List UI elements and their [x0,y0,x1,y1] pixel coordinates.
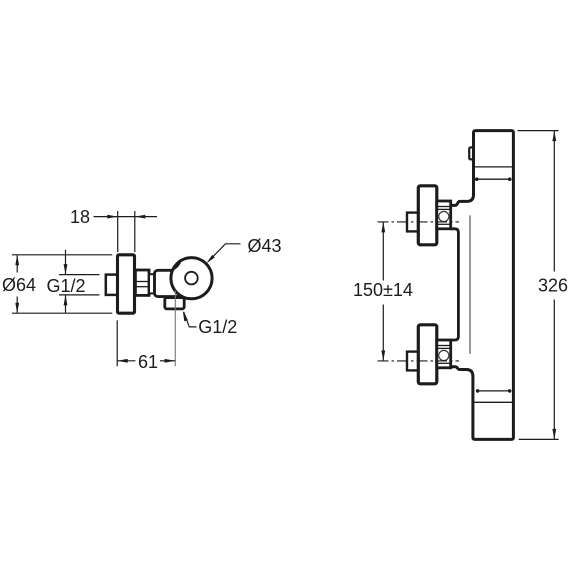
mixer bar outline with S-curves [451,131,514,440]
svg-text:G1/2: G1/2 [47,276,86,296]
ext line dia64 top [12,254,113,256]
screw line lower with dots [478,390,510,392]
outlet fitting G12 (bottom) [165,298,184,309]
dim arrow G12-left down [65,250,67,275]
ext line G12-left lower [59,294,100,296]
bottom valve: union nut [437,340,451,368]
dim line dia64 lower segment with down arrow [16,297,18,313]
leader dia43 [213,244,241,257]
ext line 326 top [518,130,559,132]
ext line 326 bottom [519,438,559,440]
dim 326 line upper with up arrow [553,131,555,271]
dim 61 line with outward arrows [117,360,135,362]
svg-text:Ø43: Ø43 [248,236,282,256]
svg-text:326: 326 [538,276,568,296]
top valve: inlet fitting [407,213,418,232]
dim 150+-14 line upper with up arrow [382,222,384,280]
ext line dia64 bottom [12,312,113,314]
bottom valve: nut ball detail [439,350,449,360]
dim 18 line and outside arrows [94,216,118,218]
top valve: wall flange [418,186,437,245]
bottom valve: inlet fitting [407,352,418,371]
svg-text:G1/2: G1/2 [198,317,237,337]
collar ring [149,274,155,293]
dim 326 line lower with down arrow [553,300,555,439]
svg-text:150±14: 150±14 [353,280,413,300]
wall flange dia64 [118,255,135,313]
screw line upper with dots [477,178,510,180]
dim 61 ext line left [116,320,118,366]
dim 18 ext line left [117,211,119,252]
top valve centerline [378,221,460,223]
dim 150+-14 line lower with down arrow [382,305,384,361]
valve body [155,270,190,296]
bottom valve centerline [378,360,460,362]
thin line lower [474,401,512,403]
leader G12 outlet [184,312,197,327]
knob inner circle [185,272,198,285]
ext line G12-left upper [59,274,100,276]
bottom valve: wall flange [418,325,437,384]
svg-text:18: 18 [70,207,90,227]
body-to-knob fillet [172,262,181,270]
svg-text:Ø64: Ø64 [2,275,36,295]
interior profile line [469,215,471,354]
outlet centerline [174,291,176,367]
top valve: nut ball detail [439,211,449,221]
bar edge between valves [451,229,459,340]
top valve: union nut [437,201,451,229]
svg-text:61: 61 [138,352,158,372]
knob circle dia43 [171,258,212,299]
union nut [135,270,149,295]
mounting tab on bar [469,147,473,159]
dim 18 ext line right [134,211,136,252]
dim line dia64 upper segment with up arrow [16,255,18,272]
thin line upper [475,166,512,168]
dim arrow G12-left up [65,295,67,313]
inlet fitting G12 (left small square) [106,275,118,295]
